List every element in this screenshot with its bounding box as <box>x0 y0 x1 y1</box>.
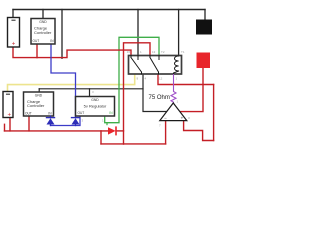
wire: charge controller U1 OUT stub <box>36 44 38 58</box>
wire: green pin tick at regulator IN <box>106 123 108 125</box>
wire: charge controller U2 OUT riser <box>28 116 30 131</box>
charge controller U1 <box>31 19 55 45</box>
svg-text:T1: T1 <box>181 50 185 54</box>
svg-text:4: 4 <box>145 77 147 81</box>
svg-text:T2: T2 <box>161 50 165 54</box>
op-amp U4 <box>160 103 187 121</box>
battery B1 <box>8 18 20 48</box>
wire: yellow net battery B2 to relay pin 9 <box>8 75 135 92</box>
relay switch S2 lever <box>150 56 159 75</box>
wire: red stub at left edge <box>4 124 6 131</box>
solar panel P1 <box>196 20 212 35</box>
wire: battery B1 positive stub to bus <box>12 10 14 18</box>
svg-text:−: − <box>164 115 167 120</box>
svg-text:1: 1 <box>102 119 104 123</box>
wire: red bottom-left supply bus <box>5 130 109 132</box>
diode D2 <box>72 117 80 119</box>
resistor R1 75 Ohm <box>171 75 176 104</box>
regulator U3 <box>76 97 115 117</box>
wire: battery B2 plus riser <box>9 118 11 131</box>
svg-text:GND: GND <box>35 93 43 97</box>
wire: bus drop to relay pin 2 <box>137 10 139 56</box>
svg-text:OUT: OUT <box>33 39 40 43</box>
svg-text:GND: GND <box>39 20 47 24</box>
wire: bus drop to relay coil pin T1 <box>178 10 180 57</box>
wire: ground rail joining U2 and U3 grounds <box>39 88 143 90</box>
relay coil L1 <box>174 56 179 75</box>
relay K1 <box>129 56 182 75</box>
wire: blue net U1 IN down to diode D2 <box>51 44 76 118</box>
wire: green net relay pin T2 to regulator IN <box>105 37 159 122</box>
svg-text:+: + <box>8 113 12 119</box>
relay switch S1 lever <box>131 56 142 75</box>
wire: load resistor R2 square to op-amp output <box>181 68 204 112</box>
wire: red net battery B1 plus to relay pin 16 <box>13 47 131 58</box>
svg-text:7: 7 <box>159 124 161 128</box>
wire: LED cathode link <box>116 130 124 132</box>
svg-text:Controller: Controller <box>34 30 52 35</box>
svg-text:GND: GND <box>91 98 99 102</box>
svg-text:1: 1 <box>140 50 142 54</box>
svg-text:OUT: OUT <box>25 111 32 115</box>
svg-text:1: 1 <box>176 77 178 81</box>
svg-text:3: 3 <box>92 90 94 94</box>
diode D1 <box>47 117 55 119</box>
svg-text:5v Regulator: 5v Regulator <box>84 104 107 109</box>
wire: red net relay pin 12 to right bus <box>158 75 214 85</box>
svg-text:13: 13 <box>152 50 156 54</box>
wire: blue diode anode bus to regulator OUT <box>51 116 81 126</box>
wire: red net relay pin 13 to LED cathode and bottom bus <box>124 43 151 144</box>
charge controller U2 <box>24 92 54 116</box>
svg-text:9: 9 <box>137 77 139 81</box>
svg-text:Controller: Controller <box>27 103 45 108</box>
svg-text:+: + <box>12 42 16 48</box>
svg-text:16: 16 <box>127 50 131 54</box>
wire: step down riser to bottom bus <box>100 131 102 144</box>
wire: bus drop to battery negative node <box>61 10 63 59</box>
wire: relay pin 4 down to op-amp inverting input <box>143 75 167 112</box>
wire: op-amp non-inverting pin 3 to right bus <box>184 121 214 141</box>
wire: red bottom bus <box>101 143 166 145</box>
svg-text:OUT: OUT <box>78 111 85 115</box>
battery B2 <box>3 92 13 118</box>
svg-text:12: 12 <box>159 77 163 81</box>
wire: red right-edge bus <box>213 85 215 141</box>
load square R2 <box>197 53 211 69</box>
svg-text:3: 3 <box>82 119 84 123</box>
svg-text:1: 1 <box>177 100 179 104</box>
svg-text:3: 3 <box>188 116 190 120</box>
wire: bus drop to solar panel P1 <box>204 10 206 20</box>
svg-text:+: + <box>181 116 184 121</box>
wire: U2 GND stub <box>38 89 40 93</box>
wire: U3 regulator GND stub <box>89 89 91 97</box>
svg-text:75 Ohm: 75 Ohm <box>149 95 170 101</box>
wire: top ground bus <box>13 9 205 11</box>
wire: charge controller U1 GND stub to bus <box>42 10 44 19</box>
LED D3 <box>108 127 116 134</box>
wire: op-amp inverting pin 7 riser <box>165 121 167 144</box>
